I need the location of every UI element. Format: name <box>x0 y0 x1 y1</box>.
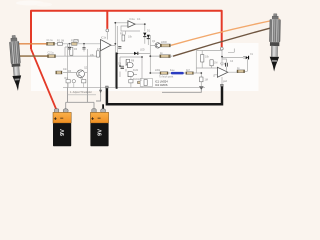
resistor R9 vertical <box>126 59 129 65</box>
resistor R20 <box>66 80 70 88</box>
resistor R13 <box>56 71 62 74</box>
watermark <box>16 1 52 7</box>
node red junction 2 <box>220 47 223 50</box>
logic gate G2 <box>128 72 134 77</box>
wire: U2 feedback loop <box>121 26 140 35</box>
wire: black stub battery2 <box>102 104 104 110</box>
text IC list <box>155 80 168 87</box>
svg-text:LED: LED <box>140 49 145 52</box>
resistor R21 <box>82 80 86 88</box>
wire: gray bottom frame of schematic <box>63 87 205 89</box>
svg-text:R2 10k: R2 10k <box>71 39 79 42</box>
wire: row2 right <box>150 55 172 57</box>
buzzer X1 <box>243 56 249 60</box>
svg-text:9V: 9V <box>98 129 104 136</box>
terminal cap right <box>221 84 224 86</box>
wire: input row 1 <box>55 43 101 45</box>
resistor R1 <box>47 42 55 45</box>
resistor R15 <box>186 72 194 75</box>
svg-text:−: − <box>97 116 101 122</box>
svg-text:220R: 220R <box>161 41 167 44</box>
svg-text:220k: 220k <box>155 69 161 72</box>
capacitor C7 <box>118 47 121 49</box>
wire: resistor under blue row <box>200 73 202 86</box>
resistor R16 vertical <box>200 77 203 82</box>
wire: gray battery bus <box>66 51 101 110</box>
battery B1 <box>53 109 71 147</box>
battery B2 <box>90 109 108 147</box>
resistor R10 vertical <box>201 55 204 62</box>
resistor R14 <box>160 72 168 75</box>
capacitor C8 <box>72 80 75 88</box>
svg-text:C2 1u: C2 1u <box>48 52 55 55</box>
resistor R6 vertical <box>122 35 125 41</box>
svg-text:−: − <box>60 116 64 122</box>
transistor Q1 <box>155 43 160 48</box>
resistor R3 <box>72 42 78 45</box>
trimmer T1 <box>74 40 78 43</box>
wire: red lead to battery 1 <box>31 49 57 110</box>
svg-text:R11: R11 <box>138 79 143 82</box>
ground symbol right <box>199 86 203 89</box>
wire: brown input left <box>16 55 48 57</box>
svg-text:9V: 9V <box>60 129 66 136</box>
inductor blue L1 <box>171 72 184 75</box>
resistor R2 <box>58 42 63 45</box>
resistor R12 <box>138 81 145 84</box>
svg-text:4k7: 4k7 <box>186 69 191 72</box>
wire: bus segment upper <box>68 94 97 96</box>
svg-text:1. Adjust Threshold: 1. Adjust Threshold <box>70 91 92 94</box>
node red junction 1 <box>106 29 109 40</box>
svg-text:1M: 1M <box>205 79 208 82</box>
wire: vertical rail C <box>149 35 151 73</box>
svg-text:IC2 CMOS: IC2 CMOS <box>155 83 168 87</box>
wire: input row 2 <box>56 47 101 56</box>
svg-text:IC2c: IC2c <box>133 78 139 81</box>
wire: red branch to node <box>106 11 108 29</box>
svg-text:10n: 10n <box>63 68 68 71</box>
resistor R7 <box>160 44 170 47</box>
ground arrow <box>99 88 102 94</box>
svg-text:fuse: fuse <box>170 69 175 72</box>
svg-text:IC2a: IC2a <box>220 62 226 65</box>
resistor R11 vertical <box>210 60 213 66</box>
wire: U2 output <box>135 24 145 44</box>
wire: opamp U1 output <box>111 44 115 46</box>
thick dark rail <box>116 53 118 89</box>
schematic white panel <box>31 10 259 91</box>
svg-text:C1 1u: C1 1u <box>47 39 54 42</box>
schematic internal gray wires <box>55 23 248 88</box>
wire: vertical rail B <box>86 49 88 88</box>
svg-text:IC2b: IC2b <box>133 69 139 72</box>
wire: right block frame <box>196 49 247 85</box>
wire: orange input left <box>17 43 47 45</box>
diode D2 <box>147 35 150 39</box>
svg-text:To fetch point: To fetch point <box>159 76 174 79</box>
box IC-note <box>140 79 152 87</box>
svg-text:R1 1M: R1 1M <box>57 39 64 42</box>
probe right <box>269 14 281 72</box>
svg-text:1M: 1M <box>214 62 217 65</box>
wire: red top loop <box>31 11 222 49</box>
capacitor C1 <box>68 44 71 52</box>
resistor R22 <box>129 80 133 83</box>
transistor Q2 <box>77 70 85 78</box>
op-amp U1 <box>101 40 112 51</box>
probe left <box>9 35 23 91</box>
wire: top row to opamp U2 <box>115 22 128 24</box>
wire: vertical rail A <box>67 44 69 88</box>
wire: vertical rail pair <box>114 23 116 88</box>
wire: gray ground return right <box>162 89 201 92</box>
diode D1 <box>143 33 146 38</box>
capacitor C2 <box>83 44 86 52</box>
wire: brown output right <box>173 26 277 56</box>
svg-text:gnd: gnd <box>223 80 228 83</box>
wire: Q1 to resistor row <box>150 44 171 46</box>
resistor R5 vertical <box>70 47 73 55</box>
capacitor C3 <box>121 67 125 69</box>
logic gate G1 <box>128 63 134 68</box>
wire: orange output right <box>171 19 280 45</box>
tiny labels <box>47 18 254 83</box>
resistor R4 <box>48 55 56 58</box>
op-amp U2 <box>128 21 135 28</box>
wire: black power return <box>107 86 222 104</box>
junction dots <box>69 22 223 74</box>
resistor R18 vertical <box>97 51 100 57</box>
svg-text:IC1a: IC1a <box>130 18 136 21</box>
text adjust note <box>70 91 92 94</box>
diode D3 <box>134 52 138 55</box>
resistor R17 <box>237 70 245 73</box>
capacitor C4 <box>226 63 228 67</box>
wire: blue row <box>150 72 201 74</box>
terminal cap left <box>106 86 109 88</box>
wire: diode row mid <box>117 39 150 54</box>
wire: lower mid network <box>63 57 145 88</box>
op-amp U3 <box>217 67 227 77</box>
svg-text:IC1b: IC1b <box>101 37 107 40</box>
resistor R8 <box>160 55 171 58</box>
